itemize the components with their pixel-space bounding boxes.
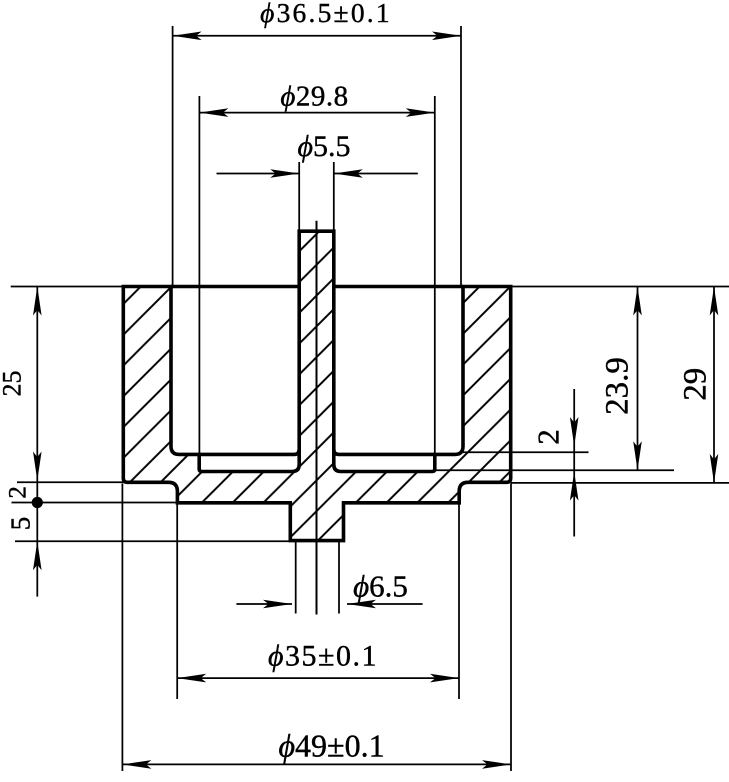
dimension φ36.5±0.1 — [173, 0, 461, 287]
dimension 29 — [511, 287, 729, 483]
top face extension lines — [11, 286, 729, 288]
svg-text:5: 5 — [5, 517, 35, 531]
cavity floor edge across grooves — [199, 449, 435, 454]
svg-text:ϕ6.5: ϕ6.5 — [353, 569, 408, 604]
svg-text:23.9: 23.9 — [600, 357, 636, 415]
dimension φ49±0.1 — [122, 484, 511, 772]
svg-text:ϕ35±0.1: ϕ35±0.1 — [268, 640, 378, 673]
dimension φ6.5 — [236, 541, 422, 614]
dimension φ35±0.1 — [177, 504, 459, 699]
svg-text:2: 2 — [531, 429, 566, 445]
left chain dimensions 25 / 2 / 5 — [0, 287, 290, 597]
svg-text:29: 29 — [678, 368, 714, 401]
svg-text:ϕ5.5: ϕ5.5 — [297, 130, 350, 163]
svg-text:ϕ36.5±0.1: ϕ36.5±0.1 — [260, 0, 392, 28]
svg-text:25: 25 — [0, 371, 27, 397]
dimension φ29.8 — [199, 81, 434, 455]
chain dot — [32, 497, 43, 508]
right small dimension 2 (groove depth) — [435, 389, 674, 537]
top rim edge across cavity openings — [171, 285, 463, 289]
section hatch fill of part body — [123, 231, 510, 540]
part outline (section boundary) — [123, 231, 510, 540]
dimension 23.9 — [600, 287, 642, 471]
dimension φ5.5 — [217, 130, 418, 231]
svg-text:2: 2 — [5, 486, 32, 499]
svg-text:ϕ29.8: ϕ29.8 — [280, 81, 348, 113]
centerline — [316, 221, 318, 615]
svg-text:ϕ49±0.1: ϕ49±0.1 — [278, 728, 384, 764]
